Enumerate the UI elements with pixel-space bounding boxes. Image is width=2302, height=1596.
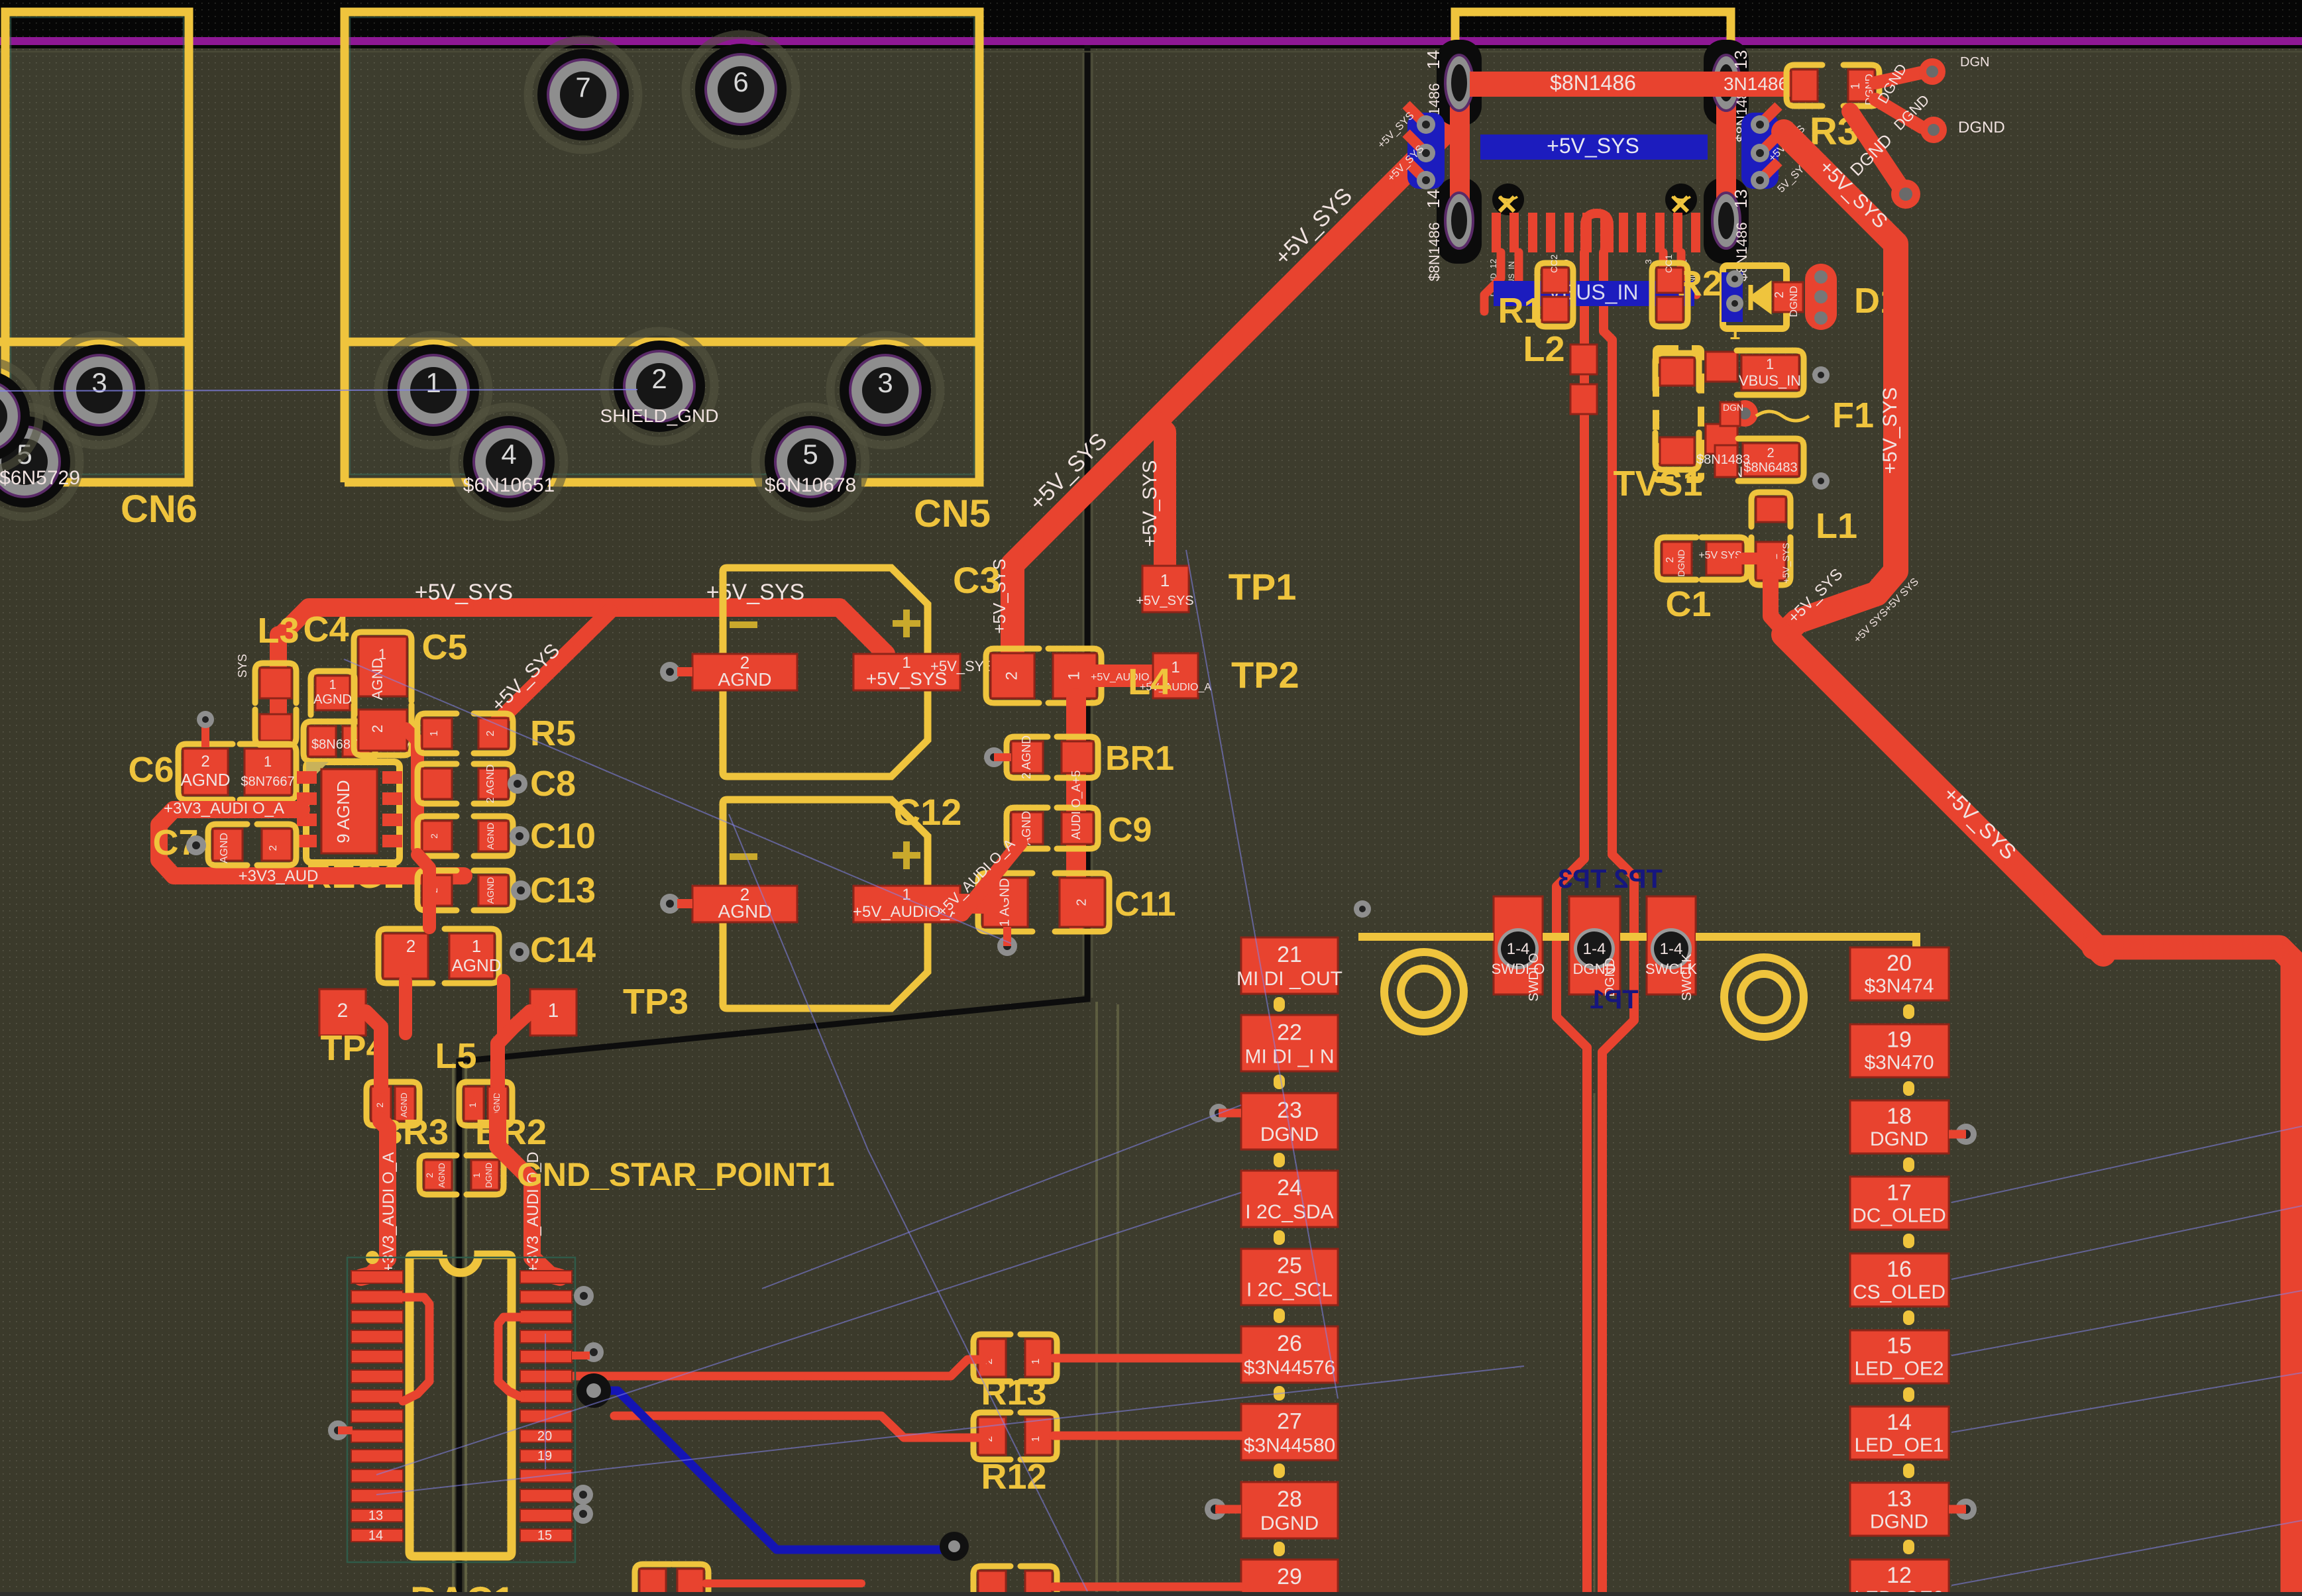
svg-text:C5: C5 bbox=[421, 627, 467, 667]
capacitor C1 bbox=[1657, 537, 1696, 580]
svg-text:1: 1 bbox=[429, 730, 440, 736]
CN6 pad 5 bbox=[0, 407, 80, 517]
svg-text:2: 2 bbox=[369, 725, 386, 733]
svg-text:AGND: AGND bbox=[219, 833, 230, 863]
L5 pads bbox=[366, 1082, 396, 1126]
svg-text:1: 1 bbox=[425, 367, 441, 398]
test point TP2 bbox=[1153, 653, 1198, 698]
svg-text:2: 2 bbox=[201, 753, 209, 771]
C3 via bbox=[660, 662, 680, 682]
wire R11 to pad29 bbox=[1054, 1583, 1241, 1591]
svg-text:21: 21 bbox=[1277, 942, 1302, 967]
wire REG1 right column bbox=[406, 729, 417, 848]
svg-text:C13: C13 bbox=[530, 871, 596, 910]
svg-text:AGND: AGND bbox=[180, 770, 230, 790]
SWD test pads bbox=[1494, 896, 1543, 994]
via pad13 bbox=[1955, 1499, 1977, 1520]
C13 pads bbox=[417, 871, 513, 910]
diode D1 bbox=[1723, 266, 1786, 329]
svg-text:L2: L2 bbox=[1523, 329, 1564, 369]
USB shell holes bbox=[1492, 184, 1524, 215]
svg-text:CS_OLED: CS_OLED bbox=[1853, 1281, 1946, 1303]
svg-text:1: 1 bbox=[467, 1102, 478, 1108]
svg-text:1: 1 bbox=[472, 936, 481, 956]
svg-text:AGND: AGND bbox=[718, 901, 772, 922]
wire +5V_SYS to TP1 bbox=[1155, 422, 1165, 566]
zone boundary dark line bbox=[459, 45, 1087, 1596]
connector CN1 silk outline bbox=[1455, 12, 1731, 192]
C3 polarity marks bbox=[730, 621, 757, 628]
svg-text:+5V_SYS: +5V_SYS bbox=[415, 580, 513, 605]
svg-text:2 AGND: 2 AGND bbox=[1020, 735, 1033, 779]
svg-text:14: 14 bbox=[1887, 1410, 1912, 1435]
svg-text:$3N470: $3N470 bbox=[1864, 1052, 1934, 1074]
DAC1 vias bbox=[574, 1286, 594, 1306]
wire +5V_SYS branch to R5 bbox=[491, 612, 610, 728]
DAC1 inner traces bbox=[403, 1297, 429, 1401]
svg-text:16: 16 bbox=[1887, 1257, 1912, 1282]
IC DAC1 outline bbox=[410, 1255, 512, 1556]
svg-text:CN5: CN5 bbox=[914, 492, 991, 535]
mounting ring A bbox=[1384, 952, 1464, 1032]
svg-text:1: 1 bbox=[471, 1173, 482, 1178]
CN5 pad 6 bbox=[686, 34, 796, 144]
wire L1 down to C1/+5V bend bbox=[1771, 580, 1782, 629]
C8..C13 vias bbox=[508, 774, 527, 794]
fuse F1 bbox=[1731, 400, 1758, 427]
wire REG1 to C14/TP column bbox=[417, 855, 429, 928]
svg-text:7: 7 bbox=[575, 72, 590, 103]
svg-text:CN6: CN6 bbox=[121, 488, 197, 531]
svg-text:19: 19 bbox=[1887, 1028, 1912, 1053]
svg-text:5: 5 bbox=[802, 439, 818, 470]
svg-text:2: 2 bbox=[429, 833, 439, 839]
svg-text:17: 17 bbox=[1887, 1181, 1912, 1206]
svg-text:SYS: SYS bbox=[236, 654, 249, 678]
svg-text:2: 2 bbox=[651, 363, 667, 394]
svg-text:$8N7667: $8N7667 bbox=[241, 774, 294, 789]
svg-text:TP1: TP1 bbox=[1590, 985, 1638, 1014]
svg-text:C1: C1 bbox=[1665, 584, 1711, 624]
capacitor C7 bbox=[208, 824, 247, 865]
svg-text:BR2: BR2 bbox=[475, 1112, 547, 1152]
svg-text:TVS1: TVS1 bbox=[1613, 464, 1702, 504]
wire +5V_SYS horizontal trace bbox=[282, 608, 886, 654]
net $8N1486 red bar bbox=[1470, 72, 1791, 97]
USB D+/D- loop bbox=[1585, 213, 1609, 252]
svg-text:2: 2 bbox=[1665, 557, 1676, 562]
svg-text:DGND: DGND bbox=[1870, 1511, 1928, 1533]
svg-text:MI DI _I N: MI DI _I N bbox=[1244, 1045, 1334, 1067]
svg-text:23: 23 bbox=[1277, 1098, 1302, 1123]
wire R13 to pad26 bbox=[1054, 1354, 1241, 1363]
wire +5V_AUDIO column bbox=[1066, 698, 1086, 921]
svg-text:1: 1 bbox=[1030, 1358, 1042, 1364]
resistor R13 bbox=[973, 1334, 1011, 1381]
resistor R11 (partial) bbox=[973, 1566, 1011, 1596]
svg-text:3N1486: 3N1486 bbox=[1724, 74, 1788, 94]
C12 via bbox=[660, 894, 680, 914]
svg-text:1: 1 bbox=[1030, 1436, 1042, 1442]
right via cluster bbox=[1741, 113, 1779, 189]
R5 pads bbox=[417, 714, 513, 753]
svg-text:R5: R5 bbox=[530, 714, 576, 753]
svg-text:+5V_SYS: +5V_SYS bbox=[1781, 543, 1791, 583]
svg-text:AGND: AGND bbox=[451, 955, 501, 975]
svg-text:1: 1 bbox=[548, 1000, 559, 1022]
zone bevel edges at boundary bbox=[1083, 53, 1085, 995]
svg-text:BR1: BR1 bbox=[1105, 739, 1174, 778]
svg-text:15: 15 bbox=[537, 1528, 552, 1543]
svg-text:2: 2 bbox=[268, 845, 279, 851]
C7 via bbox=[186, 835, 206, 855]
DAC1 pads right bbox=[520, 1271, 572, 1283]
svg-text:F1: F1 bbox=[1832, 396, 1874, 435]
BR1 via bbox=[984, 747, 1004, 767]
resistor R3 bbox=[1786, 65, 1822, 106]
capacitor C5 bbox=[354, 632, 411, 701]
svg-text:2 AGND: 2 AGND bbox=[485, 765, 496, 804]
svg-text:C4: C4 bbox=[303, 610, 349, 649]
svg-text:C12: C12 bbox=[894, 791, 962, 833]
inductor L1 bbox=[1751, 492, 1790, 527]
net VBUS_IN blue bar bbox=[1494, 281, 1694, 306]
left via cluster bbox=[1407, 113, 1445, 189]
CN5 pad 5 bbox=[755, 407, 865, 517]
top board-edge black band bbox=[0, 0, 2302, 48]
svg-text:2: 2 bbox=[406, 936, 415, 956]
svg-text:L3: L3 bbox=[257, 611, 299, 651]
svg-text:AGND: AGND bbox=[718, 669, 772, 690]
svg-text:DGND: DGND bbox=[1870, 1128, 1928, 1150]
ratsnest CN row bbox=[0, 390, 637, 391]
capacitor C6 bbox=[178, 744, 233, 800]
svg-text:R13: R13 bbox=[981, 1373, 1046, 1412]
svg-text:14: 14 bbox=[1423, 189, 1443, 209]
test point TP1 bbox=[1142, 566, 1189, 612]
svg-text:C8: C8 bbox=[530, 764, 576, 804]
C14 pads bbox=[378, 929, 499, 983]
svg-text:AGND: AGND bbox=[485, 823, 496, 849]
svg-text:4: 4 bbox=[501, 439, 516, 470]
svg-text:TP1: TP1 bbox=[1229, 566, 1297, 608]
svg-text:+5V_SYS: +5V_SYS bbox=[1879, 388, 1901, 474]
wire +5V_SYS bottom horizontal bbox=[2094, 947, 2293, 1596]
svg-text:$6N10678: $6N10678 bbox=[765, 474, 856, 496]
svg-text:2: 2 bbox=[1767, 446, 1774, 460]
svg-text:I 2C_SDA: I 2C_SDA bbox=[1245, 1201, 1333, 1223]
svg-text:L4: L4 bbox=[1128, 661, 1171, 702]
svg-text:15: 15 bbox=[1887, 1334, 1912, 1359]
svg-text:AUDI O_A+5: AUDI O_A+5 bbox=[1069, 771, 1083, 840]
wire +5V_SYS right diagonal bbox=[1784, 132, 2103, 954]
svg-text:1: 1 bbox=[329, 678, 336, 692]
yellow junction dot bbox=[366, 1251, 379, 1264]
via pad28 bbox=[1205, 1499, 1226, 1520]
C11 pads bbox=[978, 873, 1109, 931]
svg-text:2: 2 bbox=[374, 1102, 385, 1108]
CN1 shell oval pads bbox=[1445, 55, 1473, 111]
svg-text:DGN: DGN bbox=[1960, 55, 1989, 70]
inductor L3 pads bbox=[255, 663, 296, 703]
svg-text:+5V_SYS: +5V_SYS bbox=[1139, 460, 1161, 547]
svg-text:2: 2 bbox=[1003, 671, 1020, 680]
svg-text:C6: C6 bbox=[128, 750, 174, 790]
wire TP4/TP3 to L5 bbox=[366, 1012, 381, 1087]
svg-text:12: 12 bbox=[1887, 1563, 1912, 1588]
svg-text:$3N474: $3N474 bbox=[1864, 975, 1934, 997]
svg-text:26: 26 bbox=[1277, 1331, 1302, 1356]
svg-text:SWCLK: SWCLK bbox=[1680, 953, 1694, 1001]
DGND stub traces and round pads bbox=[1875, 73, 1920, 83]
wire +3V3_AUDIO_A loop bbox=[159, 810, 464, 876]
board edge (Edge.Cuts) bbox=[0, 37, 2302, 45]
svg-text:1: 1 bbox=[1065, 671, 1083, 680]
svg-text:CC1: CC1 bbox=[1663, 254, 1674, 273]
svg-text:22: 22 bbox=[1277, 1020, 1302, 1045]
svg-text:+3V3_AUDI O_A: +3V3_AUDI O_A bbox=[164, 800, 284, 818]
svg-text:L5: L5 bbox=[435, 1036, 476, 1076]
C3 pad 1 +5V_SYS bbox=[853, 654, 960, 690]
DAC1 pads left bbox=[351, 1271, 403, 1283]
svg-text:+5V_SYS: +5V_SYS bbox=[1136, 594, 1193, 608]
svg-text:$8N1486: $8N1486 bbox=[1426, 222, 1443, 281]
connector CN5 outline bbox=[345, 12, 979, 482]
svg-text:2: 2 bbox=[424, 1173, 435, 1178]
svg-text:MI DI _OUT: MI DI _OUT bbox=[1236, 968, 1343, 990]
svg-text:C9: C9 bbox=[1108, 811, 1152, 849]
svg-text:VBUS_IN: VBUS_IN bbox=[1739, 372, 1801, 389]
bottom window edge bbox=[0, 1592, 2302, 1596]
ratsnest lines bbox=[344, 659, 1011, 943]
svg-text:LED_OE2: LED_OE2 bbox=[1854, 1358, 1944, 1380]
wire blue B.Cu trace bbox=[600, 1391, 949, 1550]
wire +3V3_AUDIO_A down to DAC bbox=[361, 1121, 388, 1277]
CN6 partial pad at edge bbox=[0, 361, 39, 471]
svg-text:+3V3_AUDI O_A: +3V3_AUDI O_A bbox=[380, 1152, 398, 1273]
CN5 pad 4 bbox=[454, 407, 564, 517]
svg-text:2: 2 bbox=[485, 730, 496, 736]
svg-text:+5V_SYS: +5V_SYS bbox=[1547, 134, 1639, 158]
svg-text:C10: C10 bbox=[530, 816, 596, 856]
resistor R12 bbox=[973, 1412, 1011, 1460]
svg-text:C14: C14 bbox=[530, 930, 596, 970]
DAC1 courtyard bbox=[347, 1257, 575, 1562]
resistor at bottom edge (partial) bbox=[635, 1564, 671, 1596]
svg-text:25: 25 bbox=[1277, 1253, 1302, 1279]
svg-text:TP2 TP3: TP2 TP3 bbox=[1558, 865, 1663, 894]
svg-text:TP3: TP3 bbox=[623, 982, 688, 1022]
navy bottom-layer text bbox=[1558, 865, 1663, 894]
wire DAC to R13 bbox=[574, 1359, 985, 1376]
svg-text:AGND: AGND bbox=[437, 1163, 447, 1188]
svg-text:1: 1 bbox=[1766, 356, 1774, 372]
svg-text:29: 29 bbox=[1277, 1564, 1302, 1589]
svg-text:2: 2 bbox=[337, 1000, 349, 1022]
svg-text:AGND: AGND bbox=[485, 877, 496, 904]
svg-text:1: 1 bbox=[1729, 322, 1741, 344]
svg-text:2: 2 bbox=[1074, 898, 1089, 906]
L4 pads bbox=[986, 649, 1101, 703]
C8 pads bbox=[417, 764, 513, 804]
svg-text:1: 1 bbox=[1171, 659, 1179, 676]
wire +5V_AUDIO_A to C12 bbox=[959, 894, 994, 914]
svg-text:+5V SYS: +5V SYS bbox=[1698, 550, 1741, 561]
svg-text:13: 13 bbox=[1887, 1487, 1912, 1512]
wire L4 to TP2 bbox=[1087, 665, 1153, 687]
capacitor C12 outline bbox=[723, 800, 928, 1008]
C9 pads bbox=[1007, 808, 1098, 849]
resistor pair $8N6876 bbox=[303, 721, 341, 761]
svg-text:$3N44576: $3N44576 bbox=[1244, 1357, 1335, 1379]
svg-text:3: 3 bbox=[877, 367, 893, 398]
svg-text:GND_STAR_POINT1: GND_STAR_POINT1 bbox=[517, 1156, 835, 1193]
svg-text:DGN: DGN bbox=[1723, 402, 1743, 413]
net +5V_SYS blue bar bbox=[1480, 134, 1708, 160]
C12 pad 2 AGND bbox=[692, 886, 797, 922]
CN5 pad 7 bbox=[528, 40, 638, 150]
zone outline teal CN6 bbox=[11, 17, 184, 474]
svg-text:$6N5729: $6N5729 bbox=[0, 467, 80, 489]
$8N1483 pads bbox=[1738, 439, 1804, 481]
svg-text:$8N1486: $8N1486 bbox=[1550, 71, 1636, 95]
wire +5V_SYS main diagonal from CN1 bbox=[1013, 118, 1459, 656]
svg-text:27: 27 bbox=[1277, 1409, 1302, 1434]
svg-text:+3V3_AUD: +3V3_AUD bbox=[239, 867, 319, 885]
mounting ring B bbox=[1724, 957, 1804, 1037]
svg-text:L1: L1 bbox=[1816, 506, 1857, 546]
CN6 pad 3 bbox=[44, 335, 154, 445]
wire C1 to bend bbox=[1743, 553, 1771, 564]
svg-text:SWDI O: SWDI O bbox=[1527, 953, 1541, 1001]
USB shell X marks bbox=[1500, 197, 1688, 211]
C3 pad 2 AGND bbox=[692, 654, 797, 690]
GND_STAR_POINT1 pads bbox=[419, 1155, 457, 1195]
C11 via bbox=[997, 936, 1017, 956]
TVS1 bbox=[1656, 348, 1701, 480]
regulator REG1 bbox=[306, 762, 400, 863]
silk line through SWD row bbox=[1358, 937, 1916, 953]
zone outline teal CN5 bbox=[350, 17, 974, 474]
header pads 20-12 bbox=[1850, 947, 1949, 1000]
CN5 pad 3 bbox=[830, 335, 940, 445]
svg-text:SHIELD_GND: SHIELD_GND bbox=[600, 405, 719, 426]
svg-text:$3N44580: $3N44580 bbox=[1244, 1434, 1335, 1456]
svg-text:AGND: AGND bbox=[369, 658, 386, 700]
via pad18 bbox=[1955, 1124, 1977, 1145]
wire L3 feed bbox=[270, 635, 287, 769]
svg-text:3: 3 bbox=[91, 367, 107, 398]
C12 pad 1 +5V_AUDIO_A bbox=[853, 886, 960, 922]
svg-text:1: 1 bbox=[264, 753, 272, 770]
svg-text:DGND: DGND bbox=[1958, 119, 2005, 136]
capacitor C3 outline bbox=[723, 568, 928, 776]
svg-text:TP2: TP2 bbox=[1231, 654, 1299, 696]
connector CN6 outline bbox=[0, 12, 189, 482]
svg-text:13: 13 bbox=[368, 1509, 383, 1523]
svg-text:28: 28 bbox=[1277, 1487, 1302, 1512]
CN5 pad 1 bbox=[378, 335, 488, 445]
svg-text:13: 13 bbox=[1731, 189, 1751, 209]
test point TP3 bbox=[530, 989, 576, 1036]
svg-text:14: 14 bbox=[368, 1528, 383, 1543]
svg-text:20: 20 bbox=[1887, 951, 1912, 976]
svg-text:14: 14 bbox=[1423, 50, 1443, 70]
svg-text:CC2: CC2 bbox=[1549, 254, 1559, 273]
BR1 pads bbox=[1007, 735, 1098, 779]
svg-text:C11: C11 bbox=[1115, 885, 1176, 924]
svg-text:1: 1 bbox=[1849, 83, 1862, 89]
svg-text:C3: C3 bbox=[953, 559, 1001, 601]
svg-text:$8N6483: $8N6483 bbox=[1743, 460, 1797, 475]
svg-text:DGND: DGND bbox=[1788, 286, 1800, 317]
via pad23 bbox=[1209, 1104, 1228, 1122]
svg-text:DC_OLED: DC_OLED bbox=[1852, 1205, 1946, 1227]
svg-text:9 AGND: 9 AGND bbox=[333, 780, 353, 843]
svg-text:$6N10651: $6N10651 bbox=[463, 474, 555, 496]
wire R12 to pad27 bbox=[1054, 1432, 1241, 1440]
svg-text:DGND: DGND bbox=[484, 1163, 494, 1188]
svg-text:1: 1 bbox=[902, 886, 910, 904]
svg-text:$8N1483: $8N1483 bbox=[1696, 452, 1750, 467]
svg-text:2: 2 bbox=[1773, 292, 1786, 298]
test point TP4 bbox=[319, 989, 366, 1036]
C10 pads bbox=[417, 816, 513, 856]
CN1 shell red bars bbox=[1450, 80, 1470, 222]
wire D+/D- vertical pair bbox=[1557, 252, 1587, 1596]
svg-text:1-4: 1-4 bbox=[1583, 940, 1606, 958]
svg-text:DGND: DGND bbox=[1260, 1513, 1319, 1534]
svg-text:13: 13 bbox=[1731, 50, 1751, 70]
USB pin pads bbox=[1492, 213, 1501, 252]
VBUS_IN component bbox=[1737, 350, 1804, 395]
svg-text:6: 6 bbox=[733, 66, 748, 97]
svg-text:18: 18 bbox=[1887, 1104, 1912, 1129]
zone edge khaki lines bbox=[452, 1063, 455, 1596]
svg-text:DGND: DGND bbox=[1676, 549, 1686, 576]
header pads 21-29 bbox=[1241, 937, 1338, 994]
wire USB pin traces bbox=[1484, 252, 1501, 311]
wire DAC to R12 bbox=[614, 1416, 985, 1438]
capacitor C4 bbox=[311, 671, 355, 715]
svg-text:LED_OE1: LED_OE1 bbox=[1854, 1434, 1944, 1456]
svg-text:AGND: AGND bbox=[313, 692, 352, 707]
CN5 pad 2 bbox=[604, 331, 714, 441]
svg-text:1: 1 bbox=[1160, 570, 1170, 590]
